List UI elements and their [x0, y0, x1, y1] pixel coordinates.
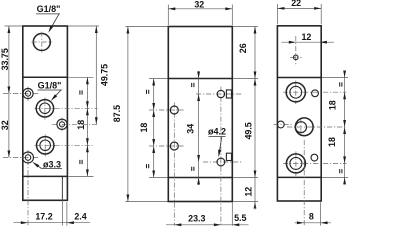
svg-text:87.5: 87.5 — [112, 105, 122, 122]
dimension 49.75 — [95, 26, 97, 124]
port C1 — [286, 83, 305, 102]
interior chain 34 dimension line — [198, 71, 200, 185]
right chain extensions — [322, 77, 348, 79]
right chain arrows and = marks — [343, 71, 346, 78]
hole D2 — [277, 121, 284, 128]
port P1 centerlines — [35, 107, 98, 109]
pilot hole B2 — [217, 158, 225, 166]
svg-text:33.75: 33.75 — [0, 48, 10, 70]
bottom extension lines left view — [61, 179, 63, 226]
middle-right chain dimension line — [254, 27, 256, 202]
svg-text:26: 26 — [238, 43, 248, 53]
right view body outline — [277, 26, 321, 201]
hole S3 centerlines — [3, 157, 39, 159]
svg-text:12: 12 — [244, 187, 254, 197]
left view lower divider edge (sub-base) — [23, 175, 68, 177]
port C2 inner circle — [296, 122, 307, 133]
hole S1 (mounting) — [23, 88, 33, 98]
dimension 22 — [277, 7, 321, 9]
left chain extension upper — [68, 76, 93, 78]
port P2 circle — [37, 137, 54, 154]
dimension 12 right view — [282, 41, 335, 43]
left view sub-base step edge — [61, 176, 63, 200]
svg-text:34: 34 — [186, 124, 196, 134]
middle-right chain arrows — [254, 27, 257, 34]
svg-text:49.5: 49.5 — [244, 122, 254, 139]
dimension 17.2 — [14, 222, 91, 224]
dimension 33.75 extension line top — [5, 25, 23, 27]
hole D1 — [312, 90, 319, 97]
svg-text:22: 22 — [291, 0, 301, 8]
dimension 23.3 — [166, 224, 249, 226]
svg-text:5.5: 5.5 — [234, 213, 246, 223]
svg-text:32: 32 — [194, 0, 204, 9]
hole A1 centerlines — [149, 109, 184, 111]
hole A2 centerlines — [149, 145, 184, 147]
dimension 33.75 — [8, 26, 10, 94]
main axis centerline through bottom — [303, 140, 305, 226]
port C3 — [286, 154, 305, 173]
left chain arrows and = marks — [86, 77, 89, 84]
svg-text:2.4: 2.4 — [74, 212, 86, 222]
svg-text:18: 18 — [327, 137, 337, 147]
pilot tab B1 on right edge — [226, 90, 231, 98]
port P2 centerlines — [35, 144, 95, 146]
bottom extension line right view — [320, 202, 322, 225]
dimension 87.5 — [127, 27, 129, 202]
hole S2 (mounting) — [57, 119, 67, 129]
right view lower divider edge — [277, 176, 321, 178]
svg-text:18: 18 — [139, 123, 149, 133]
middle view body outline — [168, 27, 232, 202]
svg-text:8: 8 — [309, 212, 314, 222]
pilot hole B2 centerlines — [203, 161, 242, 163]
middle-left chain dimension line — [153, 79, 155, 178]
middle view lower divider edge — [168, 177, 232, 179]
dimension 2.4 — [67, 221, 74, 224]
dimension 32 top — [168, 8, 232, 10]
dimension 22 extensions — [276, 4, 278, 24]
pilot tab B2 on right edge — [226, 153, 231, 160]
middle view upper divider edge — [168, 78, 232, 80]
hole S2 centerlines — [52, 123, 99, 125]
svg-text:18: 18 — [328, 100, 338, 110]
svg-text:18: 18 — [76, 120, 86, 130]
left chain extension lower — [68, 175, 93, 177]
hole D2 centerline — [274, 124, 293, 126]
left chain dimension line — [86, 77, 88, 176]
middle-right chain extensions — [233, 26, 258, 28]
top hole T — [294, 55, 299, 60]
left view body outline — [23, 26, 68, 200]
pilot hole B1 — [217, 90, 224, 97]
hole A2 — [170, 142, 178, 150]
hole A1 — [170, 106, 178, 114]
port C1 centerlines — [283, 91, 347, 93]
svg-text:ø4.2: ø4.2 — [208, 127, 226, 137]
pilot hole B1 centerlines — [196, 93, 242, 95]
middle bottom extension line right edge — [231, 203, 233, 226]
svg-text:G1/8": G1/8" — [38, 80, 62, 90]
dimension 49.75 extension line — [68, 25, 99, 27]
svg-text:23.3: 23.3 — [188, 214, 205, 224]
left view top port centerlines — [32, 41, 53, 43]
dimension 32 left — [8, 94, 10, 158]
dimension 8 — [295, 222, 332, 224]
top hole T centerline — [295, 36, 297, 65]
left view upper divider edge — [23, 76, 68, 78]
middle-left chain arrows and = marks — [152, 79, 155, 86]
hole S3 (mounting) ø3.3 — [23, 152, 34, 163]
left view top port circle G1/8 — [33, 34, 50, 51]
svg-text:12: 12 — [301, 32, 311, 42]
port C2 centerlines — [287, 126, 347, 128]
dimension 87.5 extensions — [125, 26, 167, 28]
svg-text:49.75: 49.75 — [100, 64, 110, 86]
svg-text:G1/8": G1/8" — [37, 4, 61, 14]
right chain dimension line — [344, 71, 346, 185]
dimension 5.5 — [232, 223, 239, 226]
port C2 outer circle — [295, 118, 313, 136]
svg-text:17.2: 17.2 — [35, 212, 52, 222]
right view upper divider edge — [277, 77, 321, 79]
hole D3 — [311, 154, 318, 161]
middle-left chain extensions — [149, 78, 168, 80]
interior chain arrows and = marks — [197, 72, 200, 79]
port P1 G1/8 circle — [36, 100, 53, 117]
svg-text:32: 32 — [0, 120, 10, 130]
hole S1 centerlines — [3, 93, 39, 95]
dimension 32 top extensions — [167, 5, 169, 26]
port C3 centerlines — [283, 162, 347, 164]
